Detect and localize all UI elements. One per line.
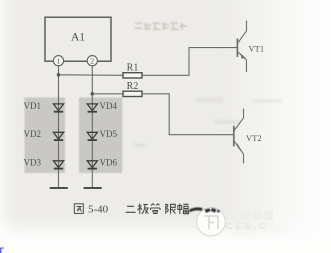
terminal 1 xyxy=(53,56,63,66)
terminal 2 xyxy=(87,56,97,66)
highlight box right (VD4-VD6) xyxy=(79,98,122,174)
char 限 xyxy=(166,204,176,214)
resistor R1 xyxy=(123,63,142,79)
caption 图 5-40 二极管限幅(器) xyxy=(74,204,188,216)
char 管 xyxy=(151,204,161,214)
bleed-through mirrored text top right (decorative) xyxy=(134,22,187,30)
svg-text:A1: A1 xyxy=(71,32,85,44)
diode VD3 xyxy=(53,161,63,169)
transistor VT2 xyxy=(234,109,262,164)
wire: R1 to VT1 base xyxy=(142,48,237,76)
diode VD1 xyxy=(53,104,63,112)
wire: terminal1 down to ground xyxy=(58,63,60,188)
svg-text:R1: R1 xyxy=(127,63,139,74)
transistor VT1 xyxy=(237,21,264,73)
faint bleed blobs (decorative) xyxy=(133,100,282,145)
amplifier A1 box xyxy=(45,17,111,61)
resistor R2 xyxy=(123,81,142,97)
svg-text:VT1: VT1 xyxy=(249,43,265,53)
diode VD2 xyxy=(53,132,63,140)
junction dot node 2 xyxy=(91,92,95,96)
svg-text:VD5: VD5 xyxy=(100,129,118,139)
svg-text:R2: R2 xyxy=(127,81,139,92)
char 图 xyxy=(74,204,83,214)
wire: terminal2 down to ground xyxy=(91,63,93,188)
svg-text:VT2: VT2 xyxy=(246,133,262,143)
wire: node2 to R2 xyxy=(92,93,123,95)
wire: node1 to R1 xyxy=(59,74,124,77)
svg-text:1: 1 xyxy=(57,56,61,65)
ground bar left xyxy=(50,187,68,189)
svg-text:T: T xyxy=(0,246,5,253)
junction dot node 1 xyxy=(57,73,61,77)
svg-text:5-40: 5-40 xyxy=(88,204,109,216)
ground bar right xyxy=(84,187,102,189)
watermark text (decorative) xyxy=(226,211,273,231)
diode VD6 xyxy=(87,161,97,169)
svg-text:VD4: VD4 xyxy=(100,101,118,111)
watermark circle (decorative) xyxy=(197,208,226,237)
diode VD4 xyxy=(87,104,97,112)
svg-text:2: 2 xyxy=(90,56,94,65)
char 幅 xyxy=(178,204,189,215)
highlight box left (VD1-VD3) xyxy=(25,98,66,174)
svg-text:VD6: VD6 xyxy=(100,158,118,168)
char 极 xyxy=(138,204,149,215)
svg-text:VD3: VD3 xyxy=(24,158,42,168)
diode VD5 xyxy=(87,132,97,140)
svg-text:VD2: VD2 xyxy=(24,129,42,139)
dark smudge over caption end (decorative) xyxy=(189,207,220,213)
char 二 xyxy=(126,206,136,212)
svg-text:VD1: VD1 xyxy=(24,101,42,111)
wire: R2 to VT2 base xyxy=(142,94,233,135)
svg-text:CES.C: CES.C xyxy=(226,221,269,231)
